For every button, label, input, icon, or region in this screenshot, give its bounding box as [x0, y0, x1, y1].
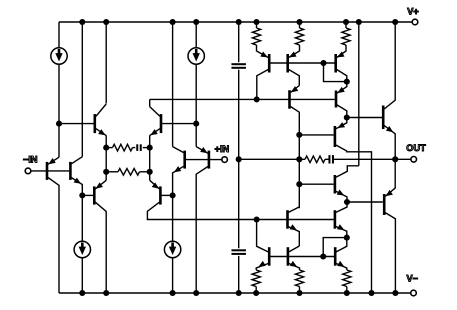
- svg-text:−IN: −IN: [23, 154, 38, 164]
- svg-text:OUT: OUT: [406, 143, 426, 153]
- svg-text:V−: V−: [407, 274, 419, 284]
- svg-text:V+: V+: [407, 7, 419, 17]
- svg-text:+IN: +IN: [215, 144, 230, 154]
